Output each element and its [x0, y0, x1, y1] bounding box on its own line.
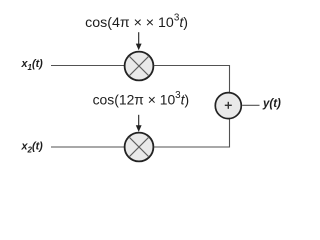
summer S1: [215, 93, 241, 119]
svg-text:cos(12π × 103t): cos(12π × 103t): [93, 90, 190, 108]
wire M2 output to summer bus: [154, 119, 230, 147]
svg-text:x2(t): x2(t): [21, 140, 44, 154]
svg-text:cos(4π × × 103t): cos(4π × × 103t): [85, 12, 188, 31]
wire summer output: [242, 104, 259, 106]
arrow from top label to multiplier M1: [136, 32, 142, 50]
svg-text:x1(t): x1(t): [21, 58, 44, 72]
multiplier M1: [125, 52, 154, 81]
multiplier M2: [125, 133, 154, 162]
wire x2 input: [51, 146, 125, 148]
wire M1 output to summer bus: [154, 66, 230, 93]
svg-text:y(t): y(t): [262, 98, 281, 110]
arrow from bottom label to multiplier M2: [136, 115, 142, 132]
wire x1 input: [51, 65, 125, 67]
